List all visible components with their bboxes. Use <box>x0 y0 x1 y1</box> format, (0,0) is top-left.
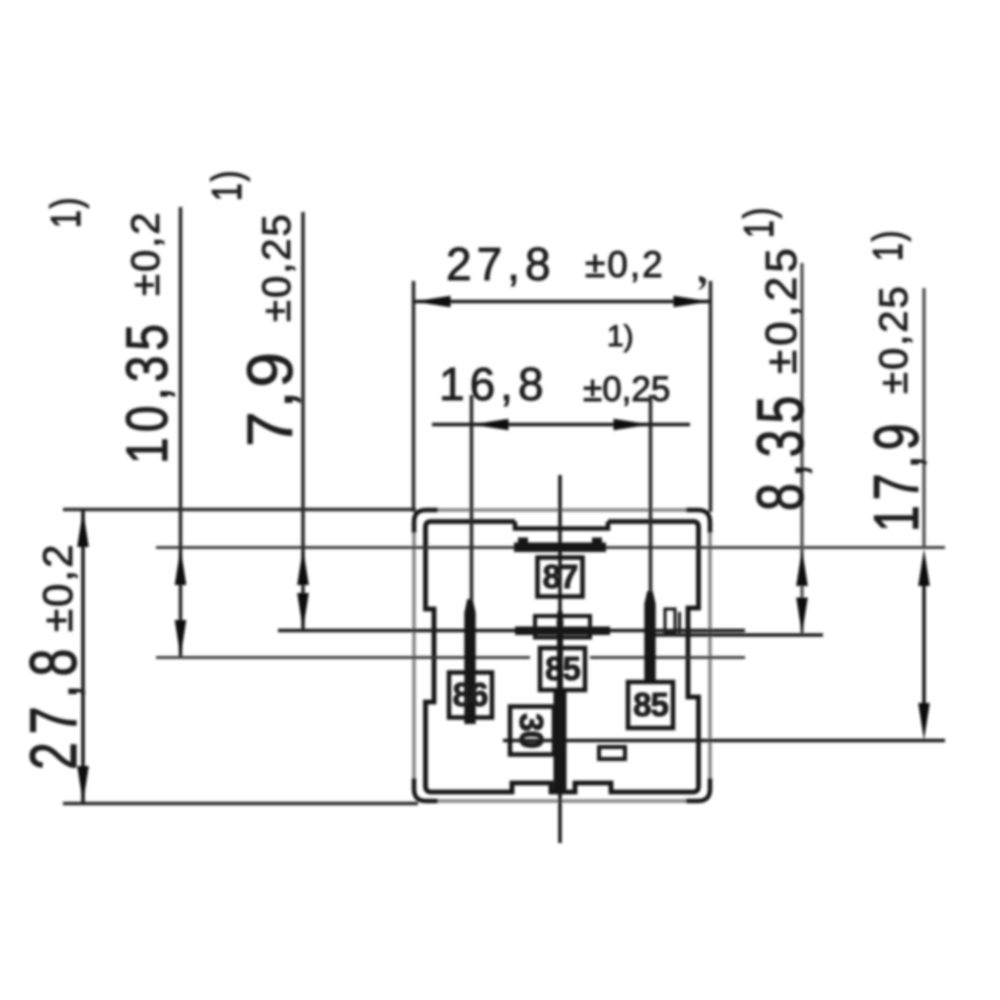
svg-text:30: 30 <box>513 713 550 748</box>
arrow up <box>77 510 89 547</box>
terminal right blade <box>644 591 655 680</box>
arrow right <box>614 419 651 431</box>
line through left pin row <box>156 656 530 659</box>
terminal top wide blade <box>514 543 606 553</box>
svg-text:27,8: 27,8 <box>446 238 556 290</box>
line through middle pin row <box>278 629 745 633</box>
dim 27,8 left: extension line top <box>63 508 416 512</box>
svg-text:10,35: 10,35 <box>116 319 181 464</box>
terminal middle label box 85 <box>540 648 585 690</box>
dim 8,35: arrow down <box>796 598 808 635</box>
svg-text:±0,25: ±0,25 <box>872 284 916 394</box>
dim 27,8 top: extension line left <box>412 281 416 512</box>
terminal left blade <box>464 599 475 724</box>
dim 8,35: extension line <box>800 263 803 633</box>
terminal bottom label box 30 <box>510 707 554 755</box>
svg-text:1): 1) <box>607 320 634 353</box>
dim 7,9: arrow up <box>297 548 309 585</box>
svg-text:17,9: 17,9 <box>861 419 932 532</box>
dim 16,8: extension line right <box>649 395 653 592</box>
line through right pin row <box>648 633 823 637</box>
svg-text:±0,2: ±0,2 <box>34 543 81 632</box>
right wall stub <box>678 612 681 633</box>
dim 17,9: extension line <box>922 288 925 547</box>
arrow left <box>414 296 451 308</box>
svg-text:±0,25: ±0,25 <box>583 370 670 409</box>
arrow left <box>472 419 509 431</box>
dim 27,8 left: dimension line <box>81 510 85 804</box>
svg-text:7,9: 7,9 <box>234 349 306 447</box>
dim 27,8 top: dimension line <box>414 300 711 304</box>
terminal middle blade <box>515 627 610 636</box>
dim 16,8: dimension line <box>432 423 690 427</box>
svg-text:86: 86 <box>453 676 488 713</box>
dim 17,9: arrow down <box>918 703 930 740</box>
dim 10,35: extension line <box>179 207 183 656</box>
svg-text:±0,25: ±0,25 <box>757 244 806 374</box>
svg-text:±0,2: ±0,2 <box>124 210 168 296</box>
dim 27,8 top: extension line right <box>709 281 713 512</box>
body inner outline (black) with wall ribs <box>426 522 699 793</box>
svg-text:16,8: 16,8 <box>439 358 549 410</box>
svg-text:±0,2: ±0,2 <box>585 244 665 285</box>
datum line through top pin row <box>156 546 945 549</box>
svg-text:85: 85 <box>633 686 668 723</box>
dim 7,9: extension line <box>301 212 305 629</box>
stray comma mark <box>698 276 706 290</box>
small rect on right wall <box>665 609 675 632</box>
svg-text:±0,25: ±0,25 <box>255 212 299 322</box>
dim 27,8 left: extension line bottom <box>63 802 418 806</box>
terminal bottom blade <box>557 611 564 625</box>
terminal top label box 87 <box>538 558 583 597</box>
dim 8,35: arrow up <box>796 549 808 586</box>
small vent rect bottom right <box>599 747 625 759</box>
arrow down <box>77 766 89 803</box>
body outer corner arcs (black) <box>414 510 438 533</box>
dim 7,9: arrow down <box>297 593 309 630</box>
svg-text:8,35: 8,35 <box>745 390 818 511</box>
svg-text:1): 1) <box>735 206 782 238</box>
svg-text:87: 87 <box>543 558 578 595</box>
dim 17,9: arrow up <box>918 549 930 586</box>
svg-text:1): 1) <box>42 196 89 228</box>
top inner notch bar <box>515 522 608 529</box>
line through bottom pin row <box>503 739 945 743</box>
dim 10,35: arrow up <box>175 548 187 585</box>
dim 16,8: extension line left <box>470 395 474 601</box>
arrow right <box>674 296 711 308</box>
svg-text:1): 1) <box>864 229 911 261</box>
svg-text:27,8: 27,8 <box>18 641 91 770</box>
dim 17,9: shaft <box>922 580 926 708</box>
body outer outline (gray rounded square) <box>414 510 710 801</box>
terminal right label box 85 <box>628 682 673 728</box>
center line vertical <box>558 475 562 843</box>
terminal left label box 86 <box>449 673 492 718</box>
dim 10,35: arrow down <box>175 620 187 657</box>
svg-text:1): 1) <box>203 169 250 201</box>
